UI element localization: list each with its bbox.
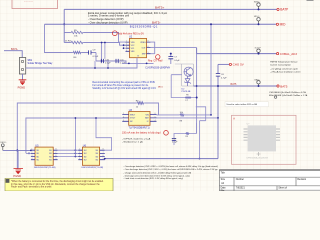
text note OVP/UVL (122, 138, 151, 144)
svg-text:4: 4 (126, 50, 127, 52)
footprint pads right (276, 129, 280, 140)
wire U2 bottom rail (122, 58, 154, 65)
svg-text:- Shutdown Iq < 1 µA: - Shutdown Iq < 1 µA (122, 140, 143, 143)
note box footprint preview (232, 115, 297, 164)
node junction W2/vertical (63, 23, 65, 25)
ic U3 pin numbers (123, 113, 156, 122)
label SB1 Solder Bridge Two Way (28, 59, 54, 65)
label D2 PDZ5.6B (182, 88, 191, 93)
wire vertical bus x=218 (217, 64, 219, 158)
svg-text:- Over discharge detection (UV: - Over discharge detection (UVP: 2.45V +… (124, 168, 219, 171)
svg-text:MID: MID (280, 23, 287, 27)
svg-text:6: 6 (56, 155, 57, 157)
footprint origin cross (257, 152, 261, 156)
svg-text:CSD16406 Q4=10mΩ ChrMax = 6.: CSD16406 Q4=10mΩ ChrMax = 6.7A (269, 91, 306, 94)
ic U5 body (35, 147, 53, 165)
svg-text:5: 5 (155, 116, 156, 118)
svg-text:7: 7 (103, 152, 104, 154)
svg-text:5: 5 (56, 158, 57, 160)
wire R9 loop (174, 123, 197, 137)
svg-text:VC1: VC1 (131, 48, 135, 50)
svg-text:PDZ5.6B: PDZ5.6B (182, 91, 191, 93)
annotation 150 mA (122, 131, 168, 136)
wire W3 CVBAL (197, 48, 277, 54)
svg-text:*When the battery is connected: *When the battery is connected for the f… (11, 180, 104, 183)
svg-text:In this case, short the V- pin: In this case, short the V- pin to the VS… (11, 183, 100, 186)
svg-text:- Load short circuit detection: - Load short circuit detection (SCD: 0.9… (124, 177, 184, 180)
solder bridge SB1 (19, 58, 25, 75)
svg-text:7: 7 (56, 152, 57, 154)
wire vertical W2 left corner down to R6 row (45, 24, 73, 52)
ground label PGND (18, 85, 26, 89)
wire loop B (x26,y118) (26, 118, 122, 153)
annotation circle: add 4k4 RES (112, 31, 144, 36)
wire vertical tap 2 to rail (104, 42, 106, 59)
net label BAT5+ (155, 6, 165, 10)
svg-text:Recommended connecting the exp: Recommended connecting the exposed pad t… (92, 81, 155, 84)
wire BAT1- to SB1 (4, 51, 22, 58)
svg-text:8: 8 (103, 149, 104, 151)
wire loop A (x17,y103) (16, 103, 136, 169)
wire SB1 bottom to ground (22, 74, 24, 80)
ic U2 body (130, 38, 147, 57)
svg-text:Title: Title (221, 171, 226, 174)
svg-text:DRCK5202DP(T1-6R): DRCK5202DP(T1-6R) (34, 167, 56, 169)
transistor Q1 (184, 67, 193, 76)
op IC U2 label (129, 36, 133, 39)
net flag MID (276, 23, 286, 27)
part number BQ29209DRB (130, 25, 158, 29)
svg-text:- 2.2 µA typ conversion cycle: - 2.2 µA typ conversion cycle (270, 68, 299, 71)
svg-text:BAT5-: BAT5- (152, 20, 161, 24)
ic U3 label (129, 109, 133, 112)
ic U5 pins (31, 150, 58, 160)
ic U6 pin names (84, 150, 99, 162)
note yellow sticky (5, 178, 113, 191)
svg-text:5: 5 (148, 52, 149, 54)
part footprint text (145, 67, 170, 69)
svg-text:Used to select either R11 or S: Used to select either R11 or SB (227, 103, 258, 106)
svg-text:- Charge overcurrent detection: - Charge overcurrent detection (OCC: -0.… (124, 172, 192, 175)
net flag BAT5 (277, 84, 288, 88)
capacitor C7 tap (168, 53, 180, 64)
wire C9 to cap rail (96, 53, 126, 64)
ground label PGND (13, 174, 21, 178)
svg-text:- Overcharge detection (OVP): - Overcharge detection (OVP) (88, 17, 124, 21)
diode D2 zener (184, 76, 191, 86)
ic U6 pins (78, 150, 105, 160)
svg-text:Date:: Date: (221, 187, 227, 190)
svg-text:Solder Bridge Two Way: Solder Bridge Two Way (28, 62, 54, 65)
resistor R8 (179, 112, 185, 122)
svg-text:1: 1 (79, 149, 80, 151)
net label BAT1- (11, 47, 18, 51)
svg-text:BQ29209DRB-Q1: BQ29209DRB-Q1 (130, 25, 158, 29)
title block (219, 170, 320, 193)
svg-text:Sheet of: Sheet of (278, 187, 287, 190)
svg-text:Current Consumption: Current Consumption (270, 63, 292, 66)
svg-text:- Overcharge detection (OVP: 4: - Overcharge detection (OVP: 4.28V +- 0.… (124, 165, 219, 168)
ic U2 pin numbers (126, 41, 149, 55)
svg-text:3: 3 (79, 155, 80, 157)
svg-text:0.1µF: 0.1µF (174, 60, 180, 62)
svg-text:VDD: VDD (131, 42, 136, 44)
wire ferrite bead branch (171, 75, 198, 103)
svg-text:BAT5: BAT5 (231, 83, 237, 86)
net label MID1 small (158, 87, 164, 89)
svg-text:4: 4 (79, 158, 80, 160)
svg-text:3: 3 (123, 120, 124, 122)
wire BAT5 run (193, 85, 277, 87)
wire bottom long run (104, 158, 218, 160)
svg-text:CHG 5V: CHG 5V (233, 63, 244, 67)
text note protections (124, 165, 219, 180)
text note CSD16406 (269, 91, 308, 97)
svg-text:8: 8 (56, 149, 57, 151)
wire vertical bus x=196.6 (196, 54, 198, 134)
ic U2 pin names (131, 42, 147, 58)
ic U6 label (83, 144, 87, 147)
wire U2 pin VREG right (151, 42, 155, 54)
resistor R6 (72, 51, 82, 59)
wire weave right of U3 (196, 107, 206, 160)
text note: recommended exposed pad (92, 81, 156, 90)
svg-text:6: 6 (103, 155, 104, 157)
svg-text:- 270 µA max shutdown current: - 270 µA max shutdown current (270, 70, 301, 73)
ic U2 right pins (147, 42, 151, 54)
resistor R4 (65, 41, 84, 44)
svg-text:VOUT: VOUT (130, 118, 136, 120)
ic U3 pin names (130, 114, 150, 123)
wire R4 leads (64, 43, 125, 46)
wire vertical bus x=211 from W2 (210, 23, 212, 115)
svg-text:4: 4 (32, 158, 33, 160)
net flag CVBAL (277, 52, 298, 56)
svg-text:1: 1 (32, 149, 33, 151)
svg-text:2: 2 (123, 116, 124, 118)
wire vertical from W1 down to R5 (63, 9, 65, 42)
net label BAT5- (152, 20, 161, 24)
svg-text:PGND: PGND (13, 174, 21, 178)
note box (top-left, clipped) (12, 0, 58, 9)
svg-text:BAT5: BAT5 (280, 84, 288, 88)
capacitor C10 (101, 59, 111, 65)
svg-text:TMP36 Temperature Sensor: TMP36 Temperature Sensor (270, 61, 298, 64)
ic U6 pin numbers (79, 149, 104, 161)
svg-text:0.1µF: 0.1µF (172, 141, 178, 143)
svg-text:2: 2 (79, 152, 80, 154)
svg-text:6: 6 (155, 113, 156, 115)
ground PGND (bottom left) (14, 150, 24, 173)
wire vertical bus x=75.4 from loopB (75, 117, 77, 156)
node dots at U2 left pins (123, 44, 125, 49)
svg-text:BAT5+: BAT5+ (155, 6, 165, 10)
svg-text:4.7µF: 4.7µF (221, 77, 227, 79)
capacitor C9 (82, 49, 99, 58)
svg-text:- Discharge overcurrent detect: - Discharge overcurrent detection (OCD1:… (124, 174, 191, 177)
annotation circle Exp pad (148, 55, 163, 63)
svg-text:DFN3030A_BQ29209: DFN3030A_BQ29209 (247, 156, 269, 159)
svg-text:PGND: PGND (18, 85, 26, 89)
wire U3 right rows (157, 114, 219, 119)
svg-text:TLV70433DBVR(T1): TLV70433DBVR(T1) (129, 128, 150, 130)
wire frame around Q1/D2 (175, 64, 194, 86)
ic U5 pin names (36, 150, 52, 162)
svg-text:Revision: Revision (297, 179, 307, 181)
ic U5 part number (34, 167, 56, 169)
ic U6 body (82, 147, 99, 165)
svg-text:BATP: BATP (280, 8, 288, 12)
svg-text:2: 2 (32, 152, 33, 154)
wire R5 leads (64, 33, 125, 43)
svg-text:3: 3 (126, 47, 127, 49)
ic U2 left pins (126, 42, 130, 51)
node dot loopB to U5 (26, 153, 31, 155)
wire rows U5 to U6 (58, 149, 83, 157)
wire U2 OUT to W3 corner (151, 47, 197, 49)
wire vertical tap to rail (101, 42, 103, 62)
svg-text:5: 5 (103, 158, 104, 160)
svg-text:7/8/2021: 7/8/2021 (236, 188, 246, 190)
svg-text:1-series, 5-series and 6-serie: 1-series, 5-series and 6-series cell (88, 14, 129, 18)
resistor R7 (136, 100, 145, 108)
text note: extra low power consumption (88, 11, 167, 25)
svg-text:For turned off when 5V driver: For turned off when 5V driver voltage is… (92, 84, 148, 87)
svg-text:0.1µF: 0.1µF (105, 63, 111, 65)
wire U6 top-right loop (95, 117, 112, 150)
test point PACK- (0, 141, 6, 150)
svg-text:-- -- --- --: -- -- --- -- (24, 2, 33, 4)
ic U3 part number (129, 128, 150, 130)
wire SB1 side tap (26, 61, 137, 69)
svg-text:Req: CTI Pad!: Req: CTI Pad! (148, 60, 163, 62)
footprint body (248, 125, 276, 151)
ic U5 label (35, 144, 39, 147)
resistor R9 (185, 132, 190, 138)
wire R7 to U3 right net (145, 103, 159, 115)
wire W2 BAT5- (45, 23, 276, 25)
test point TP MID-1 (254, 16, 260, 25)
net label BAT5 (mid wire) (231, 83, 237, 86)
footprint name (247, 156, 269, 159)
svg-text:150 mA max the battery is full: 150 mA max the battery is fully chgd (122, 132, 161, 135)
ground PGND (under SB1) (19, 80, 27, 85)
small test point near red box (274, 96, 276, 98)
svg-text:Standby 1.2V turned off @ 2.6V: Standby 1.2V turned off @ 2.6V and turne… (92, 87, 156, 90)
svg-text:4: 4 (155, 120, 156, 122)
footprint refdes (247, 123, 251, 125)
footprint pads left (244, 129, 248, 140)
wire W1 BAT5+ (64, 8, 276, 10)
resistor R5 (70, 30, 84, 38)
svg-text:DRCK5202DP(T1-6R): DRCK5202DP(T1-6R) (82, 167, 104, 169)
clipped label at top edge (307, 0, 314, 1)
svg-text:8: 8 (148, 41, 149, 43)
svg-text:VC2: VC2 (131, 45, 135, 47)
svg-text:CU-DFN3030-LE45PVH: CU-DFN3030-LE45PVH (145, 67, 170, 69)
wire bottom left rail (3, 150, 32, 152)
svg-text:SHUT: SHUT (130, 114, 136, 116)
svg-text:Number: Number (236, 178, 244, 181)
ic U3 right pins (150, 115, 157, 122)
svg-text:3: 3 (32, 155, 33, 157)
svg-text:Size: Size (221, 179, 226, 181)
ic U5 pin numbers (32, 149, 57, 161)
ic U3 left pins (122, 115, 128, 122)
svg-text:6: 6 (148, 46, 149, 48)
ic U6 part number (82, 167, 104, 169)
test point TP BAT5+ (254, 0, 261, 10)
svg-text:2: 2 (126, 44, 127, 46)
svg-text:1: 1 (126, 41, 127, 43)
test point BAT5 (255, 78, 261, 87)
svg-text:Pack+ and Pack- terminals to f: Pack+ and Pack- terminals to fire a writ… (11, 186, 52, 189)
text box: used to select (225, 102, 269, 107)
svg-text:1: 1 (123, 113, 124, 115)
svg-text:CVBAL_ADJ: CVBAL_ADJ (280, 52, 298, 56)
test point on W3 (255, 47, 262, 54)
net flag BATP (277, 8, 288, 12)
capacitor C6 (216, 74, 228, 80)
capacitor C11 (116, 59, 126, 65)
capacitor C12 (172, 137, 178, 146)
ic U3 body (129, 112, 150, 126)
text note TMP36 (270, 61, 301, 74)
net flag CHG 5V with wire (218, 63, 244, 67)
svg-text:10k: 10k (180, 112, 183, 114)
svg-text:VREG: VREG (140, 42, 146, 44)
svg-text:- OVP/UVL mode ICC = 6 µA: - OVP/UVL mode ICC = 6 µA (122, 138, 151, 141)
